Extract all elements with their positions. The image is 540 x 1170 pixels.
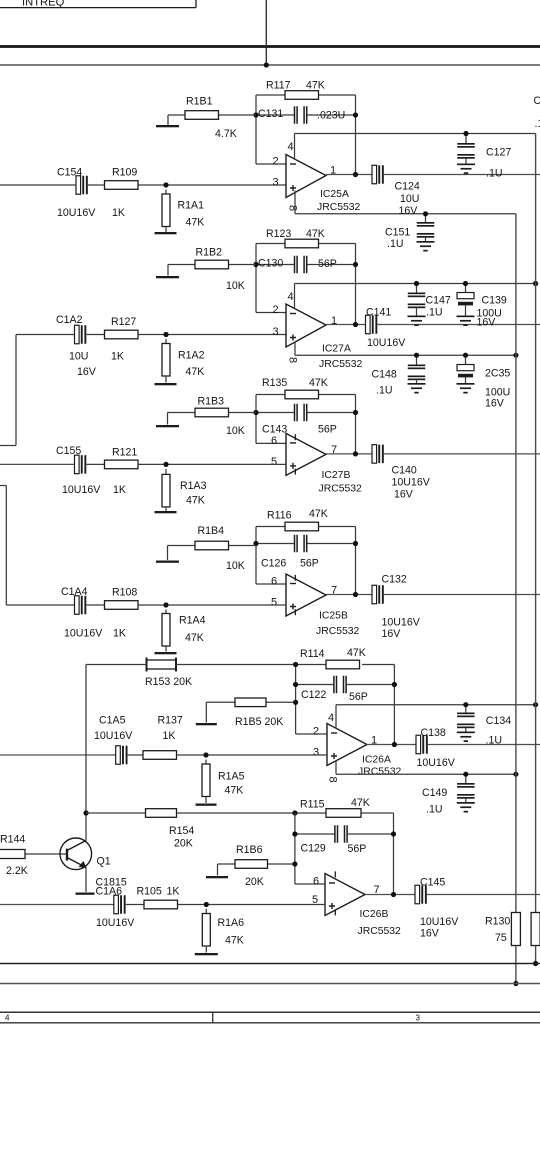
wire [377, 324, 540, 326]
svg-text:8: 8 [287, 205, 299, 211]
wire [138, 334, 286, 336]
junction [293, 682, 298, 687]
svg-text:5: 5 [271, 597, 277, 609]
junction [163, 602, 168, 607]
svg-text:C147: C147 [426, 295, 451, 307]
wire [307, 412, 356, 414]
ground [196, 723, 217, 725]
svg-text:R1A4: R1A4 [179, 615, 206, 627]
junction [533, 702, 538, 707]
svg-text:1K: 1K [163, 730, 176, 742]
svg-text:8: 8 [287, 357, 299, 363]
svg-text:R137: R137 [158, 715, 183, 727]
svg-text:2: 2 [273, 304, 279, 316]
svg-text:10K: 10K [226, 280, 245, 292]
wire [25, 853, 67, 855]
V+ rail [336, 704, 536, 706]
svg-text:10U16V: 10U16V [417, 757, 456, 769]
svg-text:R144: R144 [0, 834, 25, 846]
resistor R137 [143, 715, 183, 760]
wire [0, 445, 16, 447]
ground [155, 652, 177, 654]
junction [463, 131, 468, 136]
junction [353, 592, 358, 597]
capacitor C130 [258, 256, 337, 274]
svg-text:JRC5532: JRC5532 [358, 926, 402, 937]
resistor R1B4 [195, 525, 245, 572]
svg-text:C141: C141 [366, 307, 391, 319]
wire [217, 864, 219, 876]
junction [293, 662, 298, 667]
ground [457, 802, 475, 813]
wire [167, 115, 169, 125]
resistor R108 [105, 586, 139, 639]
svg-text:C134: C134 [486, 715, 511, 727]
svg-text:C143: C143 [262, 424, 287, 436]
svg-text:R1B6: R1B6 [236, 844, 263, 856]
svg-text:2.2K: 2.2K [6, 865, 28, 877]
resistor R117 [266, 80, 325, 100]
svg-text:6: 6 [271, 576, 277, 588]
svg-text:R114: R114 [300, 648, 325, 660]
capacitor C148 [372, 355, 426, 396]
wire [86, 463, 104, 465]
svg-text:C130: C130 [258, 258, 283, 270]
wire [228, 264, 257, 266]
resistor R1A3 [162, 474, 207, 507]
bus line (thick) [0, 45, 540, 48]
ground [156, 276, 179, 278]
svg-text:R1A5: R1A5 [218, 771, 245, 783]
wire [365, 894, 415, 896]
svg-text:10U16V: 10U16V [367, 337, 406, 349]
resistor R153 [145, 658, 192, 689]
junction [513, 981, 518, 986]
wire [268, 863, 295, 865]
svg-text:.1U: .1U [486, 735, 503, 747]
svg-text:1K: 1K [167, 886, 180, 898]
svg-text:16V: 16V [382, 628, 402, 640]
wire [256, 243, 285, 245]
resistor R1A6 [202, 914, 244, 947]
svg-text:3: 3 [273, 177, 279, 189]
op-amp IC27B [286, 433, 362, 494]
svg-text:R1B2: R1B2 [196, 247, 223, 259]
svg-text:.1U: .1U [535, 118, 540, 130]
junction [293, 700, 298, 705]
svg-text:C132: C132 [382, 574, 407, 586]
svg-text:R123: R123 [266, 228, 291, 240]
wire [205, 797, 207, 803]
svg-text:R127: R127 [111, 316, 136, 328]
op-amp IC26A [327, 724, 402, 778]
svg-text:6: 6 [313, 876, 319, 888]
junction [353, 262, 358, 267]
ground [457, 164, 475, 175]
wire [307, 264, 356, 266]
svg-text:56P: 56P [318, 424, 337, 436]
V+ bus [535, 134, 537, 913]
wire [5, 486, 7, 606]
svg-text:7: 7 [331, 585, 337, 597]
wire [256, 163, 286, 165]
ground [156, 425, 179, 427]
svg-text:IC26B: IC26B [360, 909, 389, 920]
svg-text:47K: 47K [225, 785, 244, 797]
svg-text:8: 8 [327, 777, 339, 783]
svg-text:10U16V: 10U16V [382, 617, 421, 629]
svg-text:20K: 20K [245, 876, 264, 888]
junction [463, 353, 468, 358]
svg-text:1K: 1K [112, 207, 125, 219]
resistor (unlabelled) [531, 913, 540, 946]
wire [195, 0, 197, 8]
wire [168, 264, 195, 266]
wire [165, 227, 167, 233]
bus line [0, 983, 540, 985]
wire [138, 604, 286, 606]
ground [457, 732, 475, 743]
resistor R1A1 [162, 194, 204, 229]
wire [205, 909, 207, 914]
svg-text:C151: C151 [385, 227, 410, 239]
wire [168, 545, 196, 547]
junction [253, 112, 258, 117]
wire [165, 339, 167, 344]
wire [228, 545, 257, 547]
svg-text:7: 7 [374, 884, 380, 896]
wire [255, 527, 257, 585]
svg-text:R153 20K: R153 20K [145, 676, 192, 688]
junction [513, 772, 518, 777]
svg-text:C1A2: C1A2 [56, 314, 83, 326]
svg-text:.1U: .1U [387, 238, 404, 250]
svg-text:47K: 47K [186, 217, 205, 229]
wire [205, 760, 207, 765]
op-amp IC27A [286, 304, 363, 370]
bus line [0, 963, 540, 965]
svg-text:IC25A: IC25A [320, 189, 349, 200]
V+ rail [295, 283, 536, 285]
wire [393, 813, 395, 895]
resistor R114 [300, 647, 366, 669]
ground [408, 316, 426, 327]
junction [264, 62, 269, 67]
wire [167, 413, 169, 425]
svg-text:C126: C126 [261, 558, 286, 570]
resistor R1B1 [185, 96, 237, 141]
op-amp IC25A [286, 155, 361, 214]
junction [463, 772, 468, 777]
svg-text:C155: C155 [56, 445, 81, 457]
junction [392, 742, 397, 747]
resistor R1A4 [162, 614, 206, 647]
V- rail [295, 213, 516, 215]
V- rail [295, 354, 516, 356]
V- bus [515, 214, 517, 913]
svg-text:16V: 16V [399, 205, 419, 217]
svg-text:47K: 47K [347, 647, 366, 659]
wire [128, 754, 143, 756]
capacitor C1A2 [56, 314, 97, 378]
svg-text:C124: C124 [395, 181, 420, 193]
svg-text:16V: 16V [394, 489, 414, 501]
svg-text:47K: 47K [185, 632, 204, 644]
junction [513, 353, 518, 358]
junction [353, 112, 358, 117]
wire [296, 664, 326, 666]
ground [155, 232, 177, 234]
svg-text:R115: R115 [300, 799, 325, 811]
junction [391, 831, 396, 836]
capacitor C124 [372, 165, 420, 217]
wire [361, 812, 394, 814]
wire [347, 684, 394, 686]
wire [335, 705, 337, 729]
svg-text:IC25B: IC25B [319, 611, 348, 622]
capacitor C132 [372, 574, 421, 641]
svg-text:1: 1 [371, 735, 377, 747]
svg-text:4: 4 [288, 141, 294, 153]
svg-text:10U16V: 10U16V [64, 628, 103, 640]
wire [255, 95, 257, 164]
wire [0, 7, 196, 9]
svg-text:10U16V: 10U16V [94, 730, 133, 742]
junction [423, 211, 428, 216]
svg-text:R1A2: R1A2 [178, 350, 205, 362]
wire [86, 664, 147, 666]
svg-text:56P: 56P [300, 558, 319, 570]
svg-text:IC27B: IC27B [322, 470, 351, 481]
resistor R105 [137, 886, 180, 909]
capacitor C155 [56, 445, 101, 496]
resistor R1B5 [235, 698, 283, 728]
resistor R144 [0, 834, 28, 878]
op-amp IC25B [286, 574, 360, 637]
wire [168, 114, 185, 116]
wire [294, 284, 296, 310]
ground [155, 383, 177, 385]
wire [218, 863, 236, 865]
wire [294, 134, 296, 160]
wire [165, 190, 167, 195]
svg-text:R1B1: R1B1 [186, 96, 213, 108]
wire [256, 94, 285, 96]
wire [355, 244, 357, 325]
wire [0, 485, 6, 487]
capacitor C1A6 [96, 886, 136, 930]
junction [353, 410, 358, 415]
wire [384, 174, 540, 176]
wire [295, 833, 335, 835]
wire [86, 604, 104, 606]
wire [0, 463, 75, 465]
svg-text:1: 1 [330, 165, 336, 177]
svg-text:C1A6: C1A6 [96, 886, 123, 898]
svg-text:10U16V: 10U16V [57, 207, 96, 219]
wire [355, 95, 357, 175]
wire [326, 174, 372, 176]
svg-text:JRC5532: JRC5532 [319, 359, 363, 370]
wire [294, 191, 296, 214]
svg-text:JRC5532: JRC5532 [316, 626, 360, 637]
junction [414, 281, 419, 286]
wire [319, 394, 356, 396]
svg-text:JRC5532: JRC5532 [358, 767, 402, 778]
wire [165, 646, 167, 652]
svg-text:C15: C15 [534, 95, 540, 107]
junction [292, 810, 297, 815]
svg-text:C140: C140 [392, 465, 417, 477]
wire [362, 664, 394, 666]
wire [86, 812, 146, 814]
junction [163, 332, 168, 337]
wire [256, 394, 285, 396]
wire [218, 114, 256, 116]
junction [163, 182, 168, 187]
junction [353, 172, 358, 177]
svg-text:5: 5 [271, 456, 277, 468]
svg-text:R1A6: R1A6 [218, 917, 245, 929]
svg-text:.1U: .1U [486, 168, 503, 180]
svg-text:R130: R130 [485, 916, 510, 928]
wire [515, 946, 517, 984]
wire [294, 342, 296, 355]
capacitor C149 [422, 774, 475, 815]
wire [178, 904, 326, 906]
wire [535, 946, 537, 964]
ground [156, 561, 179, 563]
wire [428, 744, 540, 746]
wire [165, 507, 167, 511]
pin stub [294, 434, 296, 440]
svg-text:IC26A: IC26A [362, 755, 391, 766]
junction [83, 810, 88, 815]
wire [255, 395, 257, 444]
wire [165, 469, 167, 475]
wire [138, 184, 286, 186]
ground [206, 876, 228, 878]
border strip [0, 1012, 540, 1023]
svg-text:1K: 1K [113, 484, 126, 496]
junction [163, 462, 168, 467]
wire [296, 733, 327, 735]
wire [256, 312, 286, 314]
svg-text:R1B4: R1B4 [198, 525, 225, 537]
ground [76, 893, 95, 895]
wire [177, 754, 328, 756]
op-amp IC26B [325, 874, 401, 938]
svg-text:.1U: .1U [426, 307, 443, 319]
capacitor C131 [258, 106, 345, 124]
svg-text:16V: 16V [477, 317, 497, 329]
wire [355, 527, 357, 595]
bus line (thin) [0, 64, 540, 66]
wire [85, 665, 87, 841]
svg-text:4: 4 [288, 291, 294, 303]
svg-text:10U16V: 10U16V [392, 477, 431, 489]
wire [265, 0, 267, 65]
svg-text:C127: C127 [486, 147, 511, 159]
ground [417, 241, 435, 252]
wire [319, 526, 356, 528]
svg-text:10U16V: 10U16V [420, 916, 459, 928]
resistor R127 [105, 316, 139, 363]
junction [414, 353, 419, 358]
svg-text:R109: R109 [112, 166, 137, 178]
svg-text:6: 6 [271, 435, 277, 447]
wire [319, 243, 356, 245]
wire [326, 324, 366, 326]
svg-text:1K: 1K [111, 351, 124, 363]
wire [319, 94, 356, 96]
svg-text:C131: C131 [258, 108, 283, 120]
wire [256, 114, 294, 116]
capacitor C138 [416, 727, 456, 769]
ground [457, 316, 475, 327]
svg-text:10U: 10U [69, 351, 88, 363]
capacitor C129 [301, 825, 367, 855]
ground [156, 125, 179, 127]
wire [176, 664, 296, 666]
wire [294, 813, 296, 884]
wire [335, 761, 337, 775]
capacitor C122 [301, 676, 368, 703]
wire [296, 684, 333, 686]
junction [253, 410, 258, 415]
svg-text:C149: C149 [422, 787, 447, 799]
wire [205, 946, 207, 953]
svg-text:R1B3: R1B3 [198, 396, 225, 408]
svg-text:C145: C145 [420, 877, 445, 889]
wire [6, 604, 74, 606]
capacitor C151 [385, 214, 434, 250]
wire [307, 114, 356, 116]
svg-text:JRC5532: JRC5532 [317, 202, 361, 213]
svg-text:R121: R121 [112, 447, 137, 459]
svg-text:R1A1: R1A1 [178, 200, 205, 212]
junction [533, 961, 538, 966]
resistor R1A5 [202, 764, 245, 797]
svg-text:R117: R117 [266, 80, 291, 92]
svg-text:47K: 47K [186, 366, 205, 378]
svg-text:.023U: .023U [317, 110, 345, 122]
ground [155, 511, 177, 513]
svg-text:JRC5532: JRC5532 [319, 484, 363, 495]
svg-text:C154: C154 [57, 166, 82, 178]
svg-text:47K: 47K [186, 495, 205, 507]
svg-text:56P: 56P [318, 258, 337, 270]
wire [88, 184, 105, 186]
svg-text:R105: R105 [137, 886, 162, 898]
wire [256, 526, 285, 528]
junction [253, 541, 258, 546]
pin stub [334, 871, 336, 877]
wire [0, 754, 116, 756]
svg-text:47K: 47K [306, 228, 325, 240]
svg-text:Q1: Q1 [97, 856, 111, 868]
pin stub [334, 909, 336, 915]
svg-text:47K: 47K [225, 935, 244, 947]
resistor R1B3 [195, 396, 245, 438]
junction [204, 902, 209, 907]
wire [167, 265, 169, 276]
svg-text:10U16V: 10U16V [96, 917, 135, 929]
wire [228, 412, 257, 414]
resistor R135 [262, 377, 328, 399]
resistor R116 [267, 508, 328, 531]
svg-text:C129: C129 [301, 843, 326, 855]
